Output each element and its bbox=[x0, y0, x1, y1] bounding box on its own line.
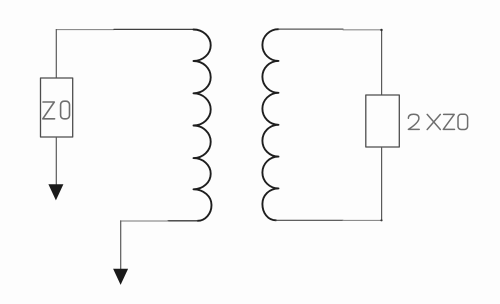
label 2XZ0 digit 2 bbox=[408, 114, 419, 129]
wire bottom-right horizontal dark segment from L2 bbox=[276, 219, 343, 221]
resistor Z0 box bbox=[41, 78, 73, 137]
wire bottom-left vertical bbox=[120, 221, 122, 271]
label 2XZ0 digit 0 bbox=[458, 114, 468, 129]
wire top-left horizontal (light segment) bbox=[56, 29, 114, 31]
wire top-right horizontal (light segment) bbox=[343, 29, 382, 31]
wire below Z0 box bbox=[55, 137, 57, 186]
wire bottom-left horizontal light segment bbox=[121, 220, 168, 222]
transformer secondary winding L2 (6 loops) bbox=[262, 29, 278, 220]
wire bottom-left horizontal dark segment from L1 bbox=[168, 220, 198, 222]
label Z0 letter Z bbox=[43, 102, 55, 119]
label 2XZ0 letter X bbox=[427, 114, 440, 129]
arrow terminal below Z0 bbox=[48, 184, 63, 200]
resistor 2XZ0 box bbox=[366, 95, 400, 147]
transformer primary winding L1 (6 loops) bbox=[194, 30, 212, 221]
wire below 2XZ0 box bbox=[381, 147, 383, 220]
junction dot at top-right corner bbox=[380, 29, 382, 31]
arrow terminal bottom-left bbox=[113, 269, 128, 285]
wire top-right horizontal (dark segment from L2) bbox=[279, 28, 344, 30]
wire left vertical from corner to Z0 box bbox=[55, 30, 57, 78]
label Z0 letter 0 bbox=[61, 101, 70, 119]
wire right vertical to 2XZ0 box bbox=[381, 30, 383, 95]
label 2XZ0 letter Z bbox=[443, 114, 454, 129]
wire top-left horizontal (dark segment to primary coil) bbox=[114, 28, 193, 30]
wire bottom-right horizontal light segment bbox=[343, 219, 382, 221]
junction dot at bottom-right corner bbox=[380, 219, 382, 221]
